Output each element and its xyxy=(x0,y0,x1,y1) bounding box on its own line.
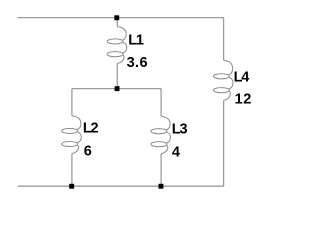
svg-text:L3: L3 xyxy=(172,121,188,137)
node junction bottom-right (L3/bottom wire) xyxy=(159,184,164,189)
node junction middle (L1/inner wire) xyxy=(115,86,120,91)
circuit schematic: four inductors L1..L4 xyxy=(0,0,263,214)
svg-text:3.6: 3.6 xyxy=(127,55,148,71)
node junction top (L1/top wire) xyxy=(114,15,119,20)
inductor L4 coil xyxy=(224,60,233,100)
wire right vertical lower (from L4) xyxy=(223,101,225,187)
wire L1 branch top stub xyxy=(116,18,118,27)
wire L2 branch bottom stub xyxy=(71,154,73,187)
node junction bottom-left (L2/bottom wire) xyxy=(69,184,74,189)
inductor L3 coil xyxy=(161,116,170,154)
wire L1 branch bottom stub xyxy=(116,64,118,89)
inductor L2 coil xyxy=(72,116,81,154)
wire inner horizontal xyxy=(72,88,161,90)
svg-text:6: 6 xyxy=(84,143,92,159)
wire L3 branch top stub xyxy=(160,89,162,117)
wire top horizontal xyxy=(18,17,224,19)
wire L2 branch top stub xyxy=(71,89,73,116)
svg-text:L2: L2 xyxy=(83,121,99,137)
svg-text:L1: L1 xyxy=(128,32,144,48)
wire right vertical upper (to L4) xyxy=(223,18,225,61)
svg-text:L4: L4 xyxy=(234,70,250,86)
inductor L1 coil xyxy=(117,27,126,64)
wire bottom horizontal xyxy=(18,185,224,187)
svg-text:12: 12 xyxy=(235,92,252,108)
wire L3 branch bottom stub xyxy=(160,154,162,186)
svg-text:4: 4 xyxy=(172,144,180,160)
